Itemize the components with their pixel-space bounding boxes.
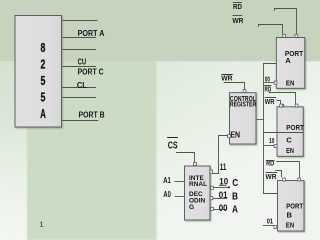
svg-text:B: B xyxy=(232,191,238,202)
pin decoder out 10 xyxy=(211,186,214,189)
wire decoder output 10 xyxy=(214,187,229,189)
wire line 3 xyxy=(62,49,97,51)
wire at CL label xyxy=(62,87,97,89)
svg-text:00: 00 xyxy=(265,76,270,83)
pin control register top xyxy=(243,89,246,92)
svg-text:CU: CU xyxy=(78,57,87,67)
label 8255A vertical xyxy=(40,41,46,121)
pin PORT B EN xyxy=(274,226,277,229)
svg-text:CL: CL xyxy=(77,80,87,90)
svg-text:RNAL: RNAL xyxy=(189,181,207,188)
svg-text:PORT B: PORT B xyxy=(79,109,105,119)
wire bus across PORT C xyxy=(264,132,304,134)
svg-text:10: 10 xyxy=(269,138,274,145)
svg-text:REGISTER: REGISTER xyxy=(230,101,256,108)
wire RD to PORT C xyxy=(269,93,296,108)
svg-text:PORT A: PORT A xyxy=(78,28,105,38)
svg-text:WR: WR xyxy=(221,76,232,83)
background lower area xyxy=(0,58,320,240)
svg-text:01: 01 xyxy=(267,219,273,226)
wire decoder output 01 xyxy=(212,198,227,200)
wire line 6 xyxy=(62,97,97,99)
pin PORT A top-right xyxy=(295,34,298,37)
svg-text:PORT: PORT xyxy=(286,123,304,132)
svg-text:A0: A0 xyxy=(163,189,171,199)
wire RD to PORT B xyxy=(276,162,299,178)
svg-text:10: 10 xyxy=(219,176,228,186)
wire under CU label xyxy=(62,66,97,68)
svg-text:C: C xyxy=(232,178,238,189)
left port line labels xyxy=(77,28,105,120)
pin PORT C top-left xyxy=(280,104,283,107)
pin PORT B top-right xyxy=(298,178,301,181)
svg-text:A: A xyxy=(40,107,46,121)
svg-text:EN: EN xyxy=(286,146,294,155)
svg-text:PORT C: PORT C xyxy=(78,66,104,76)
svg-text:B: B xyxy=(287,210,293,219)
pin PORT A top-left xyxy=(283,34,286,37)
wire 01 to PORT B EN xyxy=(263,225,274,227)
wire under PORT A label xyxy=(62,37,97,39)
svg-text:A1: A1 xyxy=(163,175,171,185)
svg-text:RD: RD xyxy=(233,2,242,11)
pin decoder top xyxy=(194,162,197,165)
wire bus branch to control register xyxy=(256,119,264,121)
port B block xyxy=(278,181,305,232)
wire WR to PORT B xyxy=(275,171,281,178)
svg-text:2: 2 xyxy=(41,58,46,72)
svg-text:EN: EN xyxy=(286,78,295,87)
wire WR to control register xyxy=(224,83,245,90)
wire port A top line xyxy=(62,20,98,22)
background top band xyxy=(0,0,320,61)
chip 8255A block xyxy=(15,16,62,128)
svg-text:A: A xyxy=(285,56,291,65)
wire A0 xyxy=(175,196,185,198)
svg-text:RD: RD xyxy=(266,161,274,168)
wire WR to PORT C xyxy=(277,101,284,107)
wire CS to decoder xyxy=(176,153,195,163)
node dot end of 10 wire xyxy=(228,186,230,188)
svg-text:8: 8 xyxy=(41,41,46,55)
svg-text:G: G xyxy=(189,204,194,211)
control register block xyxy=(230,93,257,144)
svg-text:C: C xyxy=(286,135,292,144)
pin decoder out 01 xyxy=(210,197,213,200)
port A block xyxy=(276,38,305,89)
svg-text:11: 11 xyxy=(220,162,227,173)
svg-text:CS: CS xyxy=(168,141,178,152)
pin PORT A EN xyxy=(274,81,277,84)
pin PORT B top-left xyxy=(283,178,286,181)
background green column xyxy=(27,56,157,240)
svg-text:EN: EN xyxy=(286,221,294,230)
decoder block xyxy=(185,166,211,220)
svg-text:5: 5 xyxy=(41,74,46,88)
wire A1 xyxy=(174,181,184,183)
wire RD top to PORT A xyxy=(275,9,297,35)
svg-text:WR: WR xyxy=(232,16,243,25)
wire 10 to PORT C EN xyxy=(264,145,274,147)
pin PORT C top-right xyxy=(295,104,298,107)
pin control register EN xyxy=(228,135,231,138)
pins xyxy=(194,34,301,228)
svg-text:00: 00 xyxy=(219,203,228,213)
label INTERNAL DECODING xyxy=(189,175,207,211)
port C block xyxy=(277,107,303,157)
wire decoder output 00 xyxy=(212,209,226,211)
svg-text:01: 01 xyxy=(219,190,228,200)
wire decoder 11 to control register EN xyxy=(213,136,228,174)
wire 00 to PORT A EN xyxy=(264,82,274,84)
svg-text:RD: RD xyxy=(265,87,272,94)
wire bus porta to portb xyxy=(264,64,278,194)
pin decoder out 11 xyxy=(210,170,213,173)
svg-text:1: 1 xyxy=(40,220,44,229)
pin decoder out 00 xyxy=(211,207,214,210)
svg-text:EN: EN xyxy=(230,131,240,140)
wire under PORT B label xyxy=(62,120,99,122)
wire underline of 10 xyxy=(219,185,227,187)
svg-text:WR: WR xyxy=(266,174,277,181)
svg-text:5: 5 xyxy=(41,91,46,105)
pin PORT C EN xyxy=(274,145,277,148)
svg-text:A: A xyxy=(232,204,238,215)
svg-text:WR: WR xyxy=(265,99,275,106)
wire WR top to PORT A xyxy=(259,25,283,35)
